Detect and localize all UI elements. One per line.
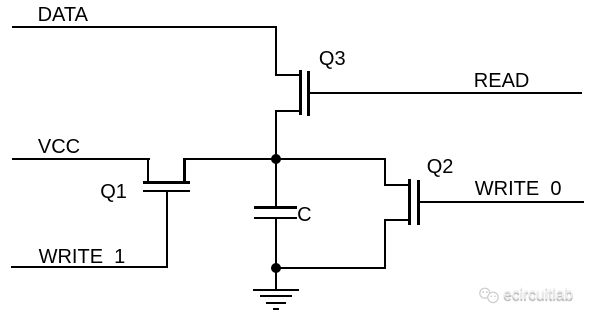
watermark ecircuitlab text [503, 287, 573, 303]
wire Q3 drain stub [275, 74, 301, 76]
transistor Q2 [0, 0, 1, 1]
label C [297, 205, 311, 225]
wire DATA to Q3 drain vertical [275, 26, 277, 77]
ground [0, 0, 1, 1]
node storage junction dot [271, 154, 281, 164]
wire Q1 drain stub vertical [147, 158, 149, 183]
transistor Q3 [0, 0, 1, 1]
node ground junction dot [271, 263, 281, 273]
wire ground node to Q2 source horizontal [276, 267, 386, 269]
capacitor C [0, 0, 1, 1]
wire storage node to capacitor vertical [275, 158, 277, 207]
label Q2 [427, 157, 454, 177]
wire WRITE 1 horizontal [11, 266, 168, 268]
wire WRITE 0 line from Q2 gate [420, 201, 584, 203]
label Q1 [100, 182, 127, 202]
label Q3 [319, 49, 346, 69]
wire Q1 source to storage node horizontal [183, 158, 385, 160]
wire Q2 drain stub [384, 184, 411, 186]
label DATA [38, 5, 88, 25]
wire Q2 source vertical [384, 219, 386, 269]
label READ [474, 71, 530, 91]
wire Q3 source stub [275, 110, 301, 112]
wire ground stem vertical [275, 268, 277, 290]
wire Q2 source stub [384, 219, 411, 221]
label VCC [38, 137, 80, 157]
wire capacitor to ground node vertical [275, 219, 277, 268]
wire Q1 source stub vertical [183, 158, 185, 183]
watermark ecircuitlab logo icon [478, 286, 502, 306]
wire storage node to Q2 drain vertical [384, 158, 386, 186]
transistor Q1 [0, 0, 1, 1]
label WRITE 1 [39, 247, 126, 267]
wire Q1 gate lead vertical [166, 191, 168, 269]
label WRITE 0 [475, 179, 562, 199]
wire DATA bus horizontal [12, 26, 277, 28]
wire VCC horizontal [12, 158, 150, 160]
wire Q3 source to storage node vertical [275, 110, 277, 160]
wire READ line from Q3 gate [310, 92, 581, 94]
